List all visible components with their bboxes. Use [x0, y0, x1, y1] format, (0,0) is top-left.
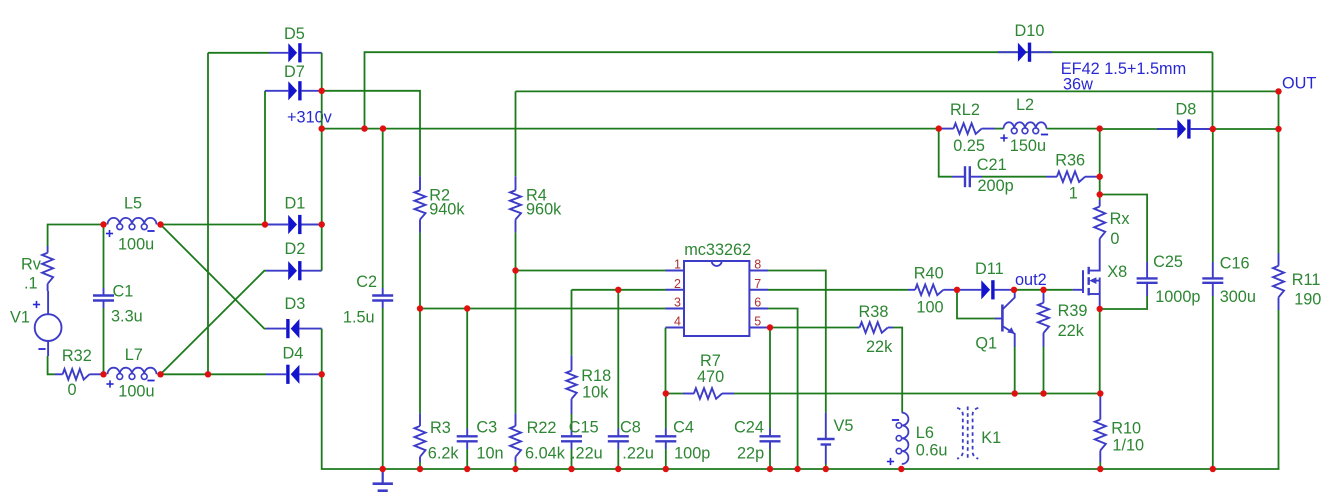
wire D7 to R2 [322, 91, 420, 176]
capacitor C4 [655, 419, 710, 470]
capacitor C8 [608, 290, 654, 469]
node L2 output [1097, 125, 1103, 131]
svg-text:4: 4 [674, 315, 681, 329]
diode D7 [265, 63, 322, 100]
node R39 top [1040, 287, 1046, 293]
svg-text:.22u: .22u [571, 445, 603, 463]
node pin6 ground [794, 466, 800, 472]
diode D2 [266, 240, 322, 280]
wire D5 anode segment [208, 52, 269, 54]
resistor R11 [1273, 253, 1321, 310]
svg-text:L7: L7 [125, 346, 143, 364]
wire L2out down to Rx [1099, 129, 1101, 200]
wire X8 source down [1099, 309, 1101, 394]
label OUT [1282, 75, 1316, 93]
wire pin4 to C4 [665, 394, 667, 429]
inductor L6 [887, 413, 948, 466]
pin 4 stub [666, 315, 685, 329]
svg-text:.22u: .22u [622, 445, 654, 463]
svg-text:C2: C2 [356, 273, 377, 291]
svg-text:1000p: 1000p [1155, 288, 1200, 306]
node X8 source [1097, 306, 1103, 312]
node R3 ground [417, 466, 423, 472]
node pin3 at R2 column [417, 305, 423, 311]
svg-text:R40: R40 [914, 264, 944, 282]
transistor X8 [1083, 250, 1127, 309]
svg-text:1: 1 [674, 258, 681, 272]
wire X8 gate lead [1073, 289, 1083, 291]
pin 5 stub [749, 315, 768, 329]
wire D10 output down to C16 column [1212, 52, 1214, 129]
svg-text:940k: 940k [429, 201, 465, 219]
op-amp U1 mc33262 [684, 241, 751, 336]
label 36w [1063, 76, 1093, 94]
svg-text:L2: L2 [1016, 96, 1034, 114]
svg-text:K1: K1 [981, 429, 1001, 447]
node pin4 R7 junction [663, 390, 669, 396]
capacitor C16 [1202, 129, 1256, 469]
node D8 line at OUT column [1275, 126, 1281, 132]
resistor R7 [666, 352, 734, 399]
capacitor C1 [93, 225, 143, 375]
node C16 ground [1210, 466, 1216, 472]
wire pin2 down to R18 [571, 290, 573, 356]
wire D4 down to ground rail [322, 374, 1280, 469]
svg-text:22p: 22p [737, 445, 764, 463]
resistor R36 [1046, 152, 1100, 203]
wire +310v rail [322, 128, 939, 130]
wire pin8 net [768, 271, 826, 413]
pin 8 stub [749, 258, 768, 272]
node D1 cathode [319, 221, 325, 227]
svg-text:8: 8 [754, 258, 761, 272]
svg-text:D5: D5 [284, 25, 305, 43]
svg-text:6: 6 [754, 296, 761, 310]
wire OUT line to R4 [515, 91, 517, 176]
wire pin1 net [516, 270, 666, 272]
wire C21 branch left [939, 129, 952, 177]
svg-text:X8: X8 [1107, 263, 1127, 281]
svg-text:200p: 200p [978, 177, 1014, 195]
svg-text:3: 3 [674, 296, 681, 310]
wire D3 to D4 link [321, 329, 323, 375]
svg-text:D7: D7 [284, 63, 305, 81]
resistor R2 [415, 176, 466, 232]
svg-text:.1: .1 [24, 275, 38, 293]
svg-text:22k: 22k [1058, 322, 1085, 340]
node R40/D11 junction [954, 287, 960, 293]
resistor R3 [415, 413, 460, 469]
node pin3 at C3 column [464, 305, 470, 311]
wire C21 to R36 [982, 176, 1046, 178]
svg-text:0: 0 [68, 381, 77, 399]
svg-text:D2: D2 [285, 240, 306, 258]
node D4 anode [319, 371, 325, 377]
svg-text:V5: V5 [834, 417, 854, 435]
node C15 ground [568, 466, 574, 472]
node C24 ground [767, 466, 773, 472]
diode D11 [957, 260, 1014, 299]
node RL2 input [936, 125, 942, 131]
wire R39 down [1043, 347, 1045, 394]
node R22 ground [512, 466, 518, 472]
wire D5 top-left vertical feeder [207, 53, 209, 375]
wire D8 anode [1100, 128, 1157, 130]
node pin5 junction [767, 324, 773, 330]
svg-text:D8: D8 [1176, 101, 1197, 119]
wire pin5 to R38 [768, 327, 857, 329]
svg-text:D3: D3 [285, 295, 306, 313]
svg-text:R18: R18 [581, 367, 611, 385]
node OUT [1275, 88, 1281, 94]
svg-text:D1: D1 [285, 195, 306, 213]
svg-text:190: 190 [1294, 290, 1321, 308]
wire diagonal L5 to D3 [161, 225, 267, 329]
resistor R22 [510, 413, 566, 469]
svg-text:0: 0 [1110, 230, 1119, 248]
svg-text:5: 5 [754, 315, 761, 329]
node +310v left [319, 125, 325, 131]
node L7 left [100, 371, 106, 377]
node C8 ground [615, 466, 621, 472]
svg-text:R3: R3 [430, 419, 451, 437]
label EF42 [1061, 60, 1186, 78]
source V5 [817, 413, 853, 469]
svg-text:V1: V1 [10, 309, 30, 327]
node R36 output [1097, 174, 1103, 180]
resistor R32 [55, 347, 104, 399]
node L5 left [100, 221, 106, 227]
resistor R18 [566, 355, 611, 414]
svg-text:+310v: +310v [287, 109, 333, 127]
svg-text:D11: D11 [975, 260, 1004, 278]
node R10 ground [1097, 466, 1103, 472]
pin 7 stub [749, 277, 768, 291]
svg-text:R22: R22 [527, 419, 557, 437]
node D1 anode [262, 221, 268, 227]
node D11 out junction [1011, 287, 1017, 293]
wire D8 to OUT [1213, 128, 1279, 130]
svg-text:D4: D4 [283, 345, 304, 363]
svg-text:C1: C1 [113, 283, 134, 301]
label out2 [1015, 271, 1047, 289]
node L6 ground [898, 466, 904, 472]
capacitor C25 [1100, 253, 1201, 309]
wire out2 net [1014, 289, 1073, 291]
node D8 cathode [1210, 126, 1216, 132]
svg-text:C16: C16 [1220, 255, 1250, 273]
pin 3 stub [666, 296, 685, 310]
label +310v [287, 109, 333, 127]
node pin1 at R4 column [512, 267, 518, 273]
svg-text:Rv: Rv [21, 256, 42, 274]
transistor Q1 [975, 290, 1014, 353]
pin 6 stub [749, 296, 768, 310]
svg-text:960k: 960k [526, 201, 562, 219]
svg-text:100u: 100u [118, 236, 154, 254]
node x208 junction [205, 371, 211, 377]
resistor RL2 [939, 101, 995, 155]
node +310v riser [361, 125, 367, 131]
wire pin4 net [665, 328, 667, 394]
svg-text:RL2: RL2 [950, 101, 980, 119]
node V5 ground [823, 466, 829, 472]
svg-text:R38: R38 [859, 303, 889, 321]
node pin2 at C8 column [615, 287, 621, 293]
capacitor C24 [734, 419, 781, 470]
capacitor C3 [457, 309, 504, 470]
wire D7/D1/D2 cathode vertical [321, 91, 323, 271]
svg-text:1: 1 [1069, 184, 1078, 202]
svg-text:100: 100 [916, 299, 943, 317]
node C4 ground [663, 466, 669, 472]
resistor R10 [1095, 394, 1144, 470]
svg-text:R39: R39 [1058, 302, 1088, 320]
svg-text:C4: C4 [673, 419, 694, 437]
svg-text:7: 7 [754, 277, 761, 291]
svg-text:0.6u: 0.6u [916, 442, 948, 460]
wire pin6 net [768, 309, 798, 470]
ground [373, 469, 393, 491]
resistor R4 [510, 176, 562, 232]
inductor L5 [106, 195, 157, 254]
node C3 ground [464, 466, 470, 472]
capacitor C15 [561, 414, 603, 469]
svg-text:300u: 300u [1220, 288, 1256, 306]
diode D10 [998, 22, 1052, 62]
svg-text:2: 2 [674, 277, 681, 291]
inductor L7 [106, 346, 156, 401]
transformer K1 [957, 407, 1001, 461]
node Rx top [1097, 191, 1103, 197]
diode D1 [266, 195, 322, 235]
diode D4 [266, 345, 322, 384]
svg-text:0.25: 0.25 [953, 137, 985, 155]
svg-text:C25: C25 [1153, 253, 1183, 271]
svg-text:C3: C3 [476, 419, 497, 437]
node R10 top [1097, 390, 1103, 396]
wire V1 branch top [48, 225, 104, 247]
svg-text:OUT: OUT [1282, 75, 1316, 93]
pin 2 stub [666, 277, 685, 291]
svg-text:out2: out2 [1015, 271, 1047, 289]
svg-text:Q1: Q1 [975, 335, 997, 353]
node L7 right [157, 371, 163, 377]
svg-text:22k: 22k [866, 338, 893, 356]
diode D5 [269, 25, 322, 62]
resistor R40 [908, 264, 957, 316]
svg-text:L6: L6 [916, 424, 934, 442]
svg-text:C8: C8 [620, 419, 641, 437]
svg-text:C21: C21 [977, 156, 1007, 174]
svg-text:1/10: 1/10 [1112, 437, 1144, 455]
svg-text:D10: D10 [1015, 22, 1045, 40]
inductor L2 [995, 96, 1100, 155]
wire Q1 emitter down [1014, 347, 1016, 394]
svg-text:mc33262: mc33262 [684, 241, 751, 259]
svg-text:R32: R32 [62, 347, 92, 365]
svg-text:C24: C24 [734, 419, 764, 437]
node L5 right [157, 221, 163, 227]
svg-text:L5: L5 [124, 195, 142, 213]
diode D8 [1157, 101, 1213, 139]
node Q1 emitter ground [1012, 390, 1018, 396]
source V1 [10, 291, 61, 356]
wire pin3 net [420, 308, 666, 310]
wire OUT line [516, 90, 1279, 92]
svg-text:1.5u: 1.5u [343, 309, 375, 327]
wire pin7 net [768, 289, 908, 291]
svg-text:6.2k: 6.2k [428, 445, 460, 463]
wire R11 down to rail [1278, 310, 1280, 469]
wire R7 net to X8 source column [734, 393, 1100, 395]
resistor Rx [1094, 200, 1129, 250]
wire R38 to L6 [893, 328, 902, 413]
wire R2 to R3 [419, 233, 421, 414]
svg-text:3.3u: 3.3u [111, 308, 143, 326]
capacitor C2 [343, 129, 393, 469]
svg-text:6.04k: 6.04k [525, 445, 566, 463]
svg-text:R10: R10 [1111, 420, 1141, 438]
wire diagonal L7 to D2 [161, 271, 267, 375]
wire D5-D7 link [321, 53, 323, 91]
svg-text:Rx: Rx [1110, 210, 1130, 228]
wire L7 to D4 [161, 373, 267, 375]
resistor R38 [857, 303, 893, 356]
node R39 bottom [1040, 390, 1046, 396]
wire pin5 to C24 [769, 328, 771, 429]
pin 1 stub [666, 258, 685, 272]
svg-text:100p: 100p [674, 445, 710, 463]
wire OUT vertical to R11 [1278, 91, 1280, 253]
node D7 output junction [319, 88, 325, 94]
svg-text:150u: 150u [1010, 137, 1046, 155]
svg-text:470: 470 [697, 368, 724, 386]
svg-text:100u: 100u [118, 383, 154, 401]
svg-text:10k: 10k [582, 383, 609, 401]
resistor R39 [1038, 290, 1087, 347]
node C2 top junction [380, 125, 386, 131]
svg-text:R36: R36 [1055, 152, 1085, 170]
resistor Rv [21, 246, 53, 293]
node C2 ground [380, 466, 386, 472]
diode D3 [266, 295, 322, 338]
wire R4 to R22 [515, 233, 517, 414]
capacitor C21 [952, 156, 1014, 195]
wire pin2 net [572, 289, 666, 291]
wire Q1 base net [957, 290, 995, 319]
wire V1 bottom [48, 356, 55, 374]
wire riser to top line [365, 52, 1213, 128]
svg-text:C15: C15 [569, 419, 599, 437]
svg-text:10n: 10n [476, 445, 503, 463]
wire D7 anode vertical [264, 91, 266, 225]
wire L5 to D1 [161, 224, 267, 226]
svg-text:R11: R11 [1292, 271, 1321, 289]
wire C25 top link [1100, 195, 1147, 263]
